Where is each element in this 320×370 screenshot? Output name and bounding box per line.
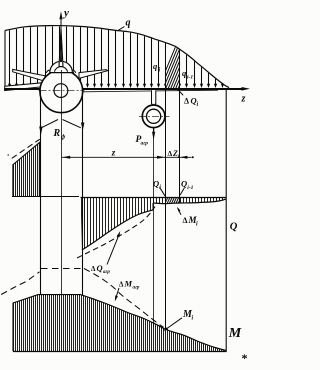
- wire Q curve inboard: [82, 210, 153, 250]
- node DeltaMagr arrow: [116, 288, 120, 299]
- svg-text:Q: Q: [230, 221, 238, 232]
- svg-text:агр: агр: [133, 286, 140, 291]
- wire M dashed right (without agregat): [84, 269, 164, 328]
- wire engine centerline vertical: [153, 128, 155, 327]
- node P_agr force arrow: [153, 128, 155, 136]
- wire M curve: [81, 295, 226, 351]
- nose cone / pitot spike: [59, 29, 63, 67]
- node R_f reaction arrow left: [39, 127, 42, 136]
- engine pylon: [152, 90, 156, 106]
- svg-text:z: z: [111, 148, 116, 158]
- svg-text:Q: Q: [97, 263, 103, 273]
- svg-text:ф: ф: [61, 134, 66, 141]
- wire DeltaQi leader: [177, 89, 183, 96]
- engine crosshair: [139, 115, 170, 117]
- wire Q-diagram axis: [81, 197, 227, 199]
- svg-text:Q: Q: [181, 179, 187, 189]
- node DeltaMi leader arrow: [178, 208, 181, 215]
- wire fuselage side line right: [82, 91, 84, 295]
- centerline crosshair horizontal: [39, 90, 85, 92]
- wire dashed line above left Q block: [12, 139, 40, 158]
- svg-text:*: *: [242, 351, 248, 365]
- wire Qi leader: [160, 187, 166, 196]
- wire q label leader: [118, 27, 125, 31]
- wire distributed-load hatch lines with arrowheads: [8, 26, 224, 88]
- svg-text:Δ: Δ: [168, 149, 173, 158]
- svg-text:M: M: [228, 326, 242, 341]
- node delta-z_i outside arrow: [180, 156, 188, 159]
- node Mi leader arrow: [166, 318, 183, 330]
- svg-text:агр: агр: [103, 270, 110, 275]
- engine nacelle outer circle: [142, 105, 165, 128]
- wire M diagram outline: [13, 295, 81, 352]
- wire R_f leader V lines: [41, 120, 81, 128]
- wire Qi-1 leader: [180, 188, 184, 195]
- wire Q dashed curve (without agregat): [77, 207, 155, 259]
- wire section line i-1 (x=179.3): [179, 49, 181, 203]
- svg-text:q: q: [126, 18, 131, 29]
- node z dimension line with arrows: [62, 156, 192, 158]
- wire M dashed across fuselage: [41, 268, 84, 270]
- svg-text:R: R: [53, 128, 61, 139]
- svg-text:Δ: Δ: [119, 281, 124, 289]
- wire Q curve outboard: [153, 199, 226, 204]
- node load-diagram left edge: [4, 31, 6, 89]
- svg-text:агр: агр: [141, 141, 149, 147]
- engine inner circle: [147, 109, 161, 123]
- wire z-axis / wing chord line: [4, 88, 244, 90]
- node DeltaQi strip (cross-hatched slice of load diagram): [166, 43, 180, 89]
- canopy side fairing left: [46, 70, 50, 73]
- fuselage circle: [40, 70, 83, 113]
- wire tailplane thin line: [83, 90, 218, 92]
- wire Q left baseline: [12, 196, 79, 198]
- wire Q curve step at engine: [152, 203, 154, 210]
- wire load-diagram top boundary curve q(z): [5, 26, 229, 88]
- canopy side fairing right: [72, 70, 76, 73]
- canopy inner dome: [54, 67, 67, 72]
- svg-text:i-1: i-1: [187, 75, 193, 81]
- svg-text:z: z: [241, 94, 246, 105]
- svg-text:Q: Q: [153, 179, 159, 189]
- svg-text:i-1: i-1: [187, 185, 193, 191]
- wire fuselage side line left: [40, 91, 42, 295]
- svg-text:M: M: [124, 279, 133, 289]
- svg-text:y: y: [62, 7, 69, 19]
- propeller blade left-upper: [13, 69, 45, 81]
- wire M dashed left: [1, 272, 39, 295]
- node z-axis arrowhead: [242, 87, 251, 91]
- svg-text:Δ: Δ: [91, 265, 96, 273]
- wire aircraft centerline vertical: [61, 70, 63, 295]
- svg-text:Δ: Δ: [183, 216, 188, 225]
- spinner inner circle: [54, 84, 68, 98]
- wing right (front view): [79, 70, 108, 79]
- node DeltaQagr arrow: [107, 234, 119, 265]
- wire wing tip vertical line: [225, 89, 227, 352]
- node R_f reaction arrow right: [81, 123, 84, 132]
- svg-text:Δ: Δ: [184, 97, 189, 106]
- wire section line i (x=165.5): [165, 43, 167, 329]
- wire M baseline: [13, 351, 227, 353]
- node Q-diagram hatched area: [82, 197, 223, 250]
- propeller blade left-lower: [5, 83, 44, 91]
- canopy outer dome: [50, 61, 73, 72]
- node y-axis arrow: [60, 14, 62, 30]
